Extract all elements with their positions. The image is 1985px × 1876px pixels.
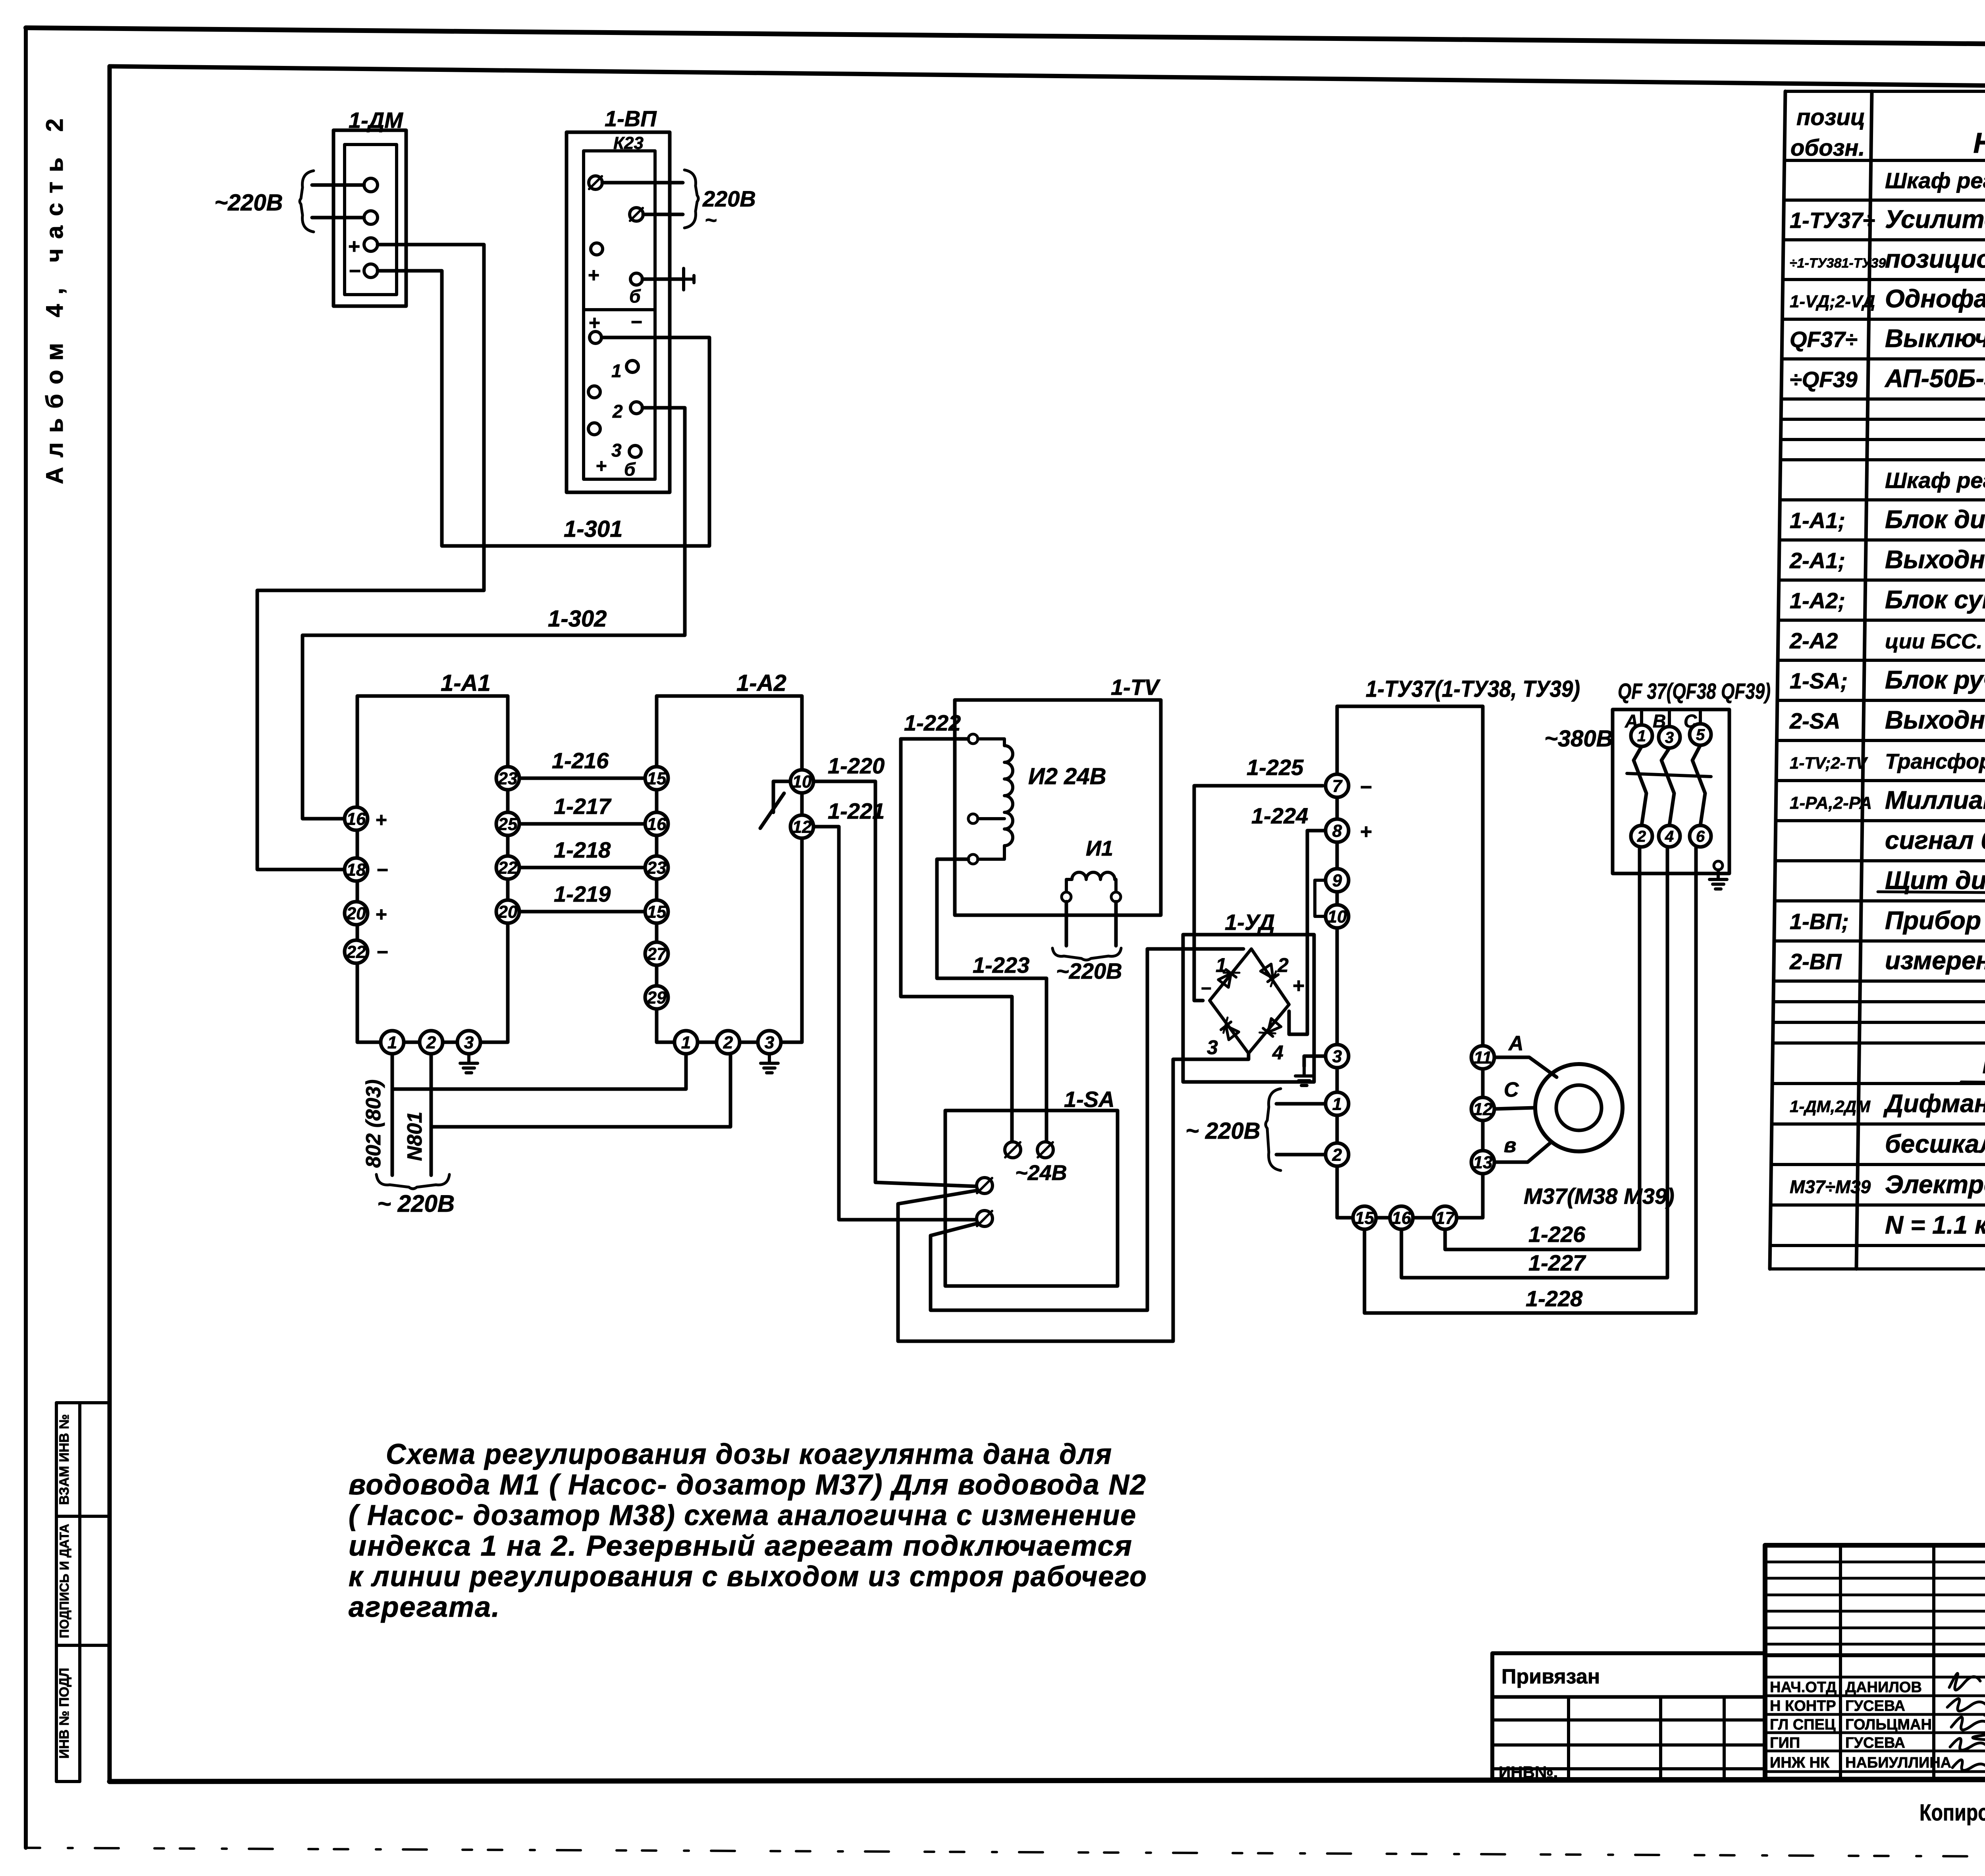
svg-text:1-ВП;: 1-ВП; [1790,909,1849,934]
svg-text:2-SА: 2-SА [1789,708,1840,733]
svg-text:агрегата.: агрегата. [349,1591,500,1623]
wire 1-DM supply a [312,183,364,187]
svg-text:Выходной сигнал 0-5мА ~24В: Выходной сигнал 0-5мА ~24В [1885,706,1985,734]
terminal 1-VP plus output [590,332,601,343]
wire 1-224 bridge plus to TU terminal 8 [1289,831,1324,1034]
terminal 1-VP pin3a [588,423,600,435]
terminal TU 9 [1326,869,1349,892]
svg-text:−: − [1201,978,1211,999]
QF pole А contact [1634,746,1646,825]
inner drawing frame left [108,66,112,1782]
svg-text:10: 10 [1328,907,1347,926]
block 1-A1 box [357,696,508,1042]
svg-text:Электродвигатель 4АХ80А4: Электродвигатель 4АХ80А4 [1885,1170,1985,1199]
svg-text:1-219: 1-219 [554,881,611,906]
QF ground terminal [1714,861,1723,870]
motor M37 outer circle [1535,1064,1623,1151]
underbrace supply 220V [376,1174,449,1189]
wire TU 13 to motor phase B [1494,1142,1551,1162]
svg-text:К23: К23 [613,133,644,153]
svg-text:QF 37(QF38 QF39): QF 37(QF38 QF39) [1618,679,1771,704]
QF pole В contact [1661,748,1674,825]
wire TV prim b down [1114,902,1118,946]
block 1-VP outer box [567,132,670,492]
terminal TU 10 [1326,905,1349,928]
wire 1-VP ground [642,278,684,281]
terminal 1-A1 16 [345,807,368,830]
svg-text:−: − [349,260,360,283]
svg-text:~220В: ~220В [1056,958,1122,983]
svg-text:1: 1 [681,1033,691,1052]
svg-text:1: 1 [611,361,622,381]
svg-text:16: 16 [647,814,667,834]
svg-text:20: 20 [498,902,518,922]
svg-text:1-302: 1-302 [548,606,607,632]
svg-text:Блок ручного управления БРУ-2: Блок ручного управления БРУ-22 [1885,665,1985,694]
svg-text:ИНВ№.: ИНВ№. [1499,1763,1558,1782]
svg-text:1-ВП: 1-ВП [605,106,657,131]
QF pole В top stub [1668,710,1671,727]
QF terminal 2 [1631,825,1652,847]
svg-text:И2 24В: И2 24В [1028,764,1106,789]
svg-text:N801: N801 [403,1112,426,1161]
terminal TU 11 [1471,1046,1494,1069]
terminal 1-A2 27 [645,942,668,965]
QF pole С contact [1692,745,1705,825]
svg-text:1-А1;: 1-А1; [1790,508,1845,533]
terminal 1-A2 15 [645,767,668,790]
QF pole А top stub [1640,710,1643,725]
svg-text:220В: 220В [702,186,756,211]
signature squiggles [1947,1674,1985,1770]
terminal SA left2 [977,1211,992,1226]
svg-text:Миллиамперметр М381. Выходной: Миллиамперметр М381. Выходной [1885,786,1985,814]
svg-text:23: 23 [498,769,518,788]
switch stub at 1-A2 10 [773,781,790,812]
svg-text:29: 29 [647,988,667,1007]
svg-text:к линии регулирования с вы: к линии регулирования с выходом из строя… [349,1561,1147,1593]
svg-text:в: в [1504,1134,1516,1157]
svg-text:1: 1 [1332,1094,1342,1114]
svg-text:÷1-ТУ381-ТУ39: ÷1-ТУ381-ТУ39 [1790,256,1886,271]
QF ground symbol [1717,870,1720,879]
underline Po mestu [1961,1082,1985,1084]
svg-text:1-222: 1-222 [904,710,961,735]
title block vertical 1 [1839,1545,1842,1779]
terminal 1-A1 22r [496,856,519,879]
page outer border bottom (torn edge) [26,1848,1985,1859]
terminal 1-A2 16 [645,812,668,835]
inner drawing frame bottom [110,1779,1985,1782]
svg-text:ДАНИЛОВ: ДАНИЛОВ [1845,1679,1922,1696]
svg-text:1-225: 1-225 [1247,755,1304,780]
svg-text:М37(М38 М39): М37(М38 М39) [1524,1184,1675,1209]
terminal 1-VP pin2 [630,402,642,414]
svg-text:1-А1: 1-А1 [441,670,491,696]
wire N801 from 1-A1 pin2 [430,1054,433,1175]
svg-text:НАБИУЛЛИНА: НАБИУЛЛИНА [1845,1755,1951,1771]
table col divider oboznachenie [1856,91,1872,1269]
terminal 1-A1 20 [345,902,368,925]
svg-text:ИНЖ НК: ИНЖ НК [1770,1755,1830,1771]
brace 220V at 1-VP [684,170,698,228]
terminal 1-VP pin3 [629,445,641,457]
svg-text:1-221: 1-221 [828,798,885,823]
svg-text:~380В: ~380В [1544,726,1613,752]
svg-text:1-ТV: 1-ТV [1111,675,1161,700]
title block full line [1765,1653,1985,1657]
svg-text:ИНВ № ПОДЛ: ИНВ № ПОДЛ [57,1668,72,1759]
svg-text:1-228: 1-228 [1526,1286,1583,1311]
svg-text:Шкаф регулирования коагулянта: Шкаф регулирования коагулянта N2 [1885,468,1985,493]
terminal TU 12 [1471,1097,1494,1120]
terminal TU 2 [1326,1143,1349,1166]
svg-text:13: 13 [1473,1153,1493,1172]
svg-text:8: 8 [1332,821,1342,841]
svg-text:3: 3 [1665,729,1674,746]
svg-text:1-SА;: 1-SА; [1790,668,1848,693]
inner drawing frame top [110,66,1985,91]
svg-text:+: + [375,809,387,831]
svg-text:ГУСЕВА: ГУСЕВА [1845,1698,1905,1714]
svg-text:÷QF39: ÷QF39 [1790,367,1858,392]
svg-text:1-УД: 1-УД [1225,910,1275,935]
divider line in 1-VP [584,308,655,311]
svg-text:Прибор регистрирующий, предел: Прибор регистрирующий, предел [1885,906,1985,935]
svg-text:( Насос- дозатор М38) схема: ( Насос- дозатор М38) схема аналогична с… [349,1500,1137,1531]
block 1-TU37 box [1337,706,1483,1218]
svg-text:позиционный У-22М: позиционный У-22М [1885,245,1985,273]
left stamp strip box [56,1403,80,1782]
diode 3 [1218,1018,1239,1040]
svg-text:3: 3 [464,1033,474,1052]
svg-text:1: 1 [1216,954,1227,976]
svg-text:15: 15 [1355,1208,1374,1228]
svg-text:−: − [376,859,388,881]
jumper 9-10 [1315,880,1326,916]
terminal SA top2 [1037,1142,1053,1158]
terminal TU 3 [1326,1045,1349,1068]
svg-text:ГЛ СПЕЦ: ГЛ СПЕЦ [1770,1716,1836,1733]
strip divider 2 [56,1644,110,1647]
svg-text:Привязан: Привязан [1501,1665,1600,1688]
wire 1-VP supply 2 [643,213,683,216]
terminal TU 1 [1326,1092,1349,1115]
title block thin rows left [1765,1562,1985,1772]
svg-text:Выключатель автоматический: Выключатель автоматический [1885,324,1985,353]
wire 1-217 [519,822,645,826]
page outer border left [24,28,28,1848]
svg-text:Дифманометр мембранный: Дифманометр мембранный [1883,1089,1985,1118]
terminal 1-A2 23 [645,856,668,879]
diode 2 [1260,964,1281,986]
page outer border top [26,28,1985,48]
svg-text:измерения 0-5мА. РП-160-09: измерения 0-5мА. РП-160-09 [1885,946,1985,975]
left stamp strip second column [80,1401,110,1404]
svg-text:~: ~ [705,209,717,232]
terminal 1-A2 1 [675,1031,698,1054]
wire junction N801 to 1-A2 pin2 [431,1054,730,1127]
block QF37 box [1613,710,1729,873]
svg-text:б: б [629,286,641,307]
svg-text:−: − [376,941,388,963]
wire 1-216 [519,777,645,780]
svg-text:1-ДМ: 1-ДМ [349,108,403,133]
switch blade at 1-A2 [760,793,784,828]
svg-text:обозн.: обозн. [1790,135,1865,161]
svg-text:3: 3 [611,440,622,461]
wire TU 12 to motor phase C [1494,1108,1535,1109]
svg-text:15: 15 [647,769,667,788]
terminal 1-A2 3 [758,1031,781,1054]
wire 1-VP supply 1 [602,181,683,185]
svg-text:25: 25 [498,814,518,834]
svg-text:11: 11 [1474,1048,1492,1067]
wire 1-220 from 1-A2 10 to SA [813,781,976,1186]
svg-text:+: + [588,264,599,286]
svg-text:ВЗАМ ИНВ №: ВЗАМ ИНВ № [57,1414,72,1505]
svg-text:1-ДМ,2ДМ: 1-ДМ,2ДМ [1790,1097,1871,1116]
svg-text:802 (803): 802 (803) [362,1080,385,1168]
svg-text:+: + [348,235,360,258]
svg-text:ПОДПИСЬ И ДАТА: ПОДПИСЬ И ДАТА [57,1524,71,1638]
wire TU 2 supply [1276,1153,1326,1157]
wire TV prim a down [1065,902,1068,946]
terminal 1-VP supply 2 [630,208,643,221]
terminal 1-A1 23 [496,767,519,790]
svg-text:позиц: позиц [1796,104,1865,130]
svg-text:2: 2 [1332,1145,1342,1165]
wire TU 1 supply [1276,1102,1326,1106]
terminal TV sec mid [968,814,978,823]
wire 1-225 bridge minus to TU terminal 7 [1194,786,1323,1001]
terminal TU 17 [1434,1206,1457,1229]
wire 1-223 TV to 1-SA [937,859,1046,1142]
svg-text:~ 220В: ~ 220В [1185,1118,1260,1144]
terminal 1-A2 2 [717,1031,740,1054]
terminal 1-VP spare [591,243,603,255]
svg-text:+: + [1292,974,1304,997]
wire junction 802 to 1-A2 pin1 [392,1054,686,1089]
QF terminal 5 [1690,724,1711,745]
terminal 1-A1 22 [345,940,368,963]
terminal 1-A1 18 [345,858,368,881]
svg-text:~24В: ~24В [1015,1161,1067,1185]
block 1-TV box [955,700,1161,915]
privyazan vertical 3 [1723,1697,1726,1779]
svg-text:Копировал. Коршунова: Копировал. Коршунова [1919,1800,1985,1826]
QF terminal 6 [1690,825,1711,847]
privyazan vertical 2 [1659,1697,1662,1779]
terminal TV sec bot [968,854,978,864]
svg-text:По месту: По месту [1982,1050,1985,1079]
svg-text:7: 7 [1332,776,1343,796]
svg-text:1-220: 1-220 [828,753,885,778]
ground at 1-A2 pin3 [768,1054,771,1063]
svg-text:Однофазный мост КЦ-402Е: Однофазный мост КЦ-402Е [1885,284,1985,313]
strip divider 1 [56,1515,110,1518]
terminal TU 16 [1390,1206,1413,1229]
svg-text:22: 22 [498,858,518,877]
terminal 1-A1 3 [457,1031,480,1054]
svg-text:−: − [630,311,642,333]
svg-text:Н КОНТР: Н КОНТР [1770,1698,1836,1714]
wire SA left2 to bridge top [931,949,1243,1310]
svg-text:ции БСС. выходной сигнал- 0-5м: ции БСС. выходной сигнал- 0-5мА~220В [1885,630,1985,653]
svg-text:1-226: 1-226 [1528,1222,1586,1247]
ground at 1-A1 pin3 [467,1054,470,1063]
terminal TV sec top [968,734,978,744]
svg-text:А: А [1508,1032,1524,1055]
svg-text:1-VД;2-VД: 1-VД;2-VД [1790,292,1875,311]
svg-text:1-А2;: 1-А2; [1790,588,1845,613]
table horizontal rules [1770,91,1985,1269]
svg-text:~220В: ~220В [214,190,283,216]
winding I1 primary coil [1066,872,1116,893]
svg-text:1-ТV;2-ТV: 1-ТV;2-ТV [1790,754,1868,772]
wire 802(803) from 1-A1 pin1 [391,1054,394,1175]
privyazan row lines [1492,1720,1765,1769]
svg-text:1-216: 1-216 [552,748,609,773]
svg-text:+: + [375,903,387,925]
svg-text:1-ТУ37(1-ТУ38, ТУ39): 1-ТУ37(1-ТУ38, ТУ39) [1366,676,1580,702]
svg-text:Блок динамической связи БДС: Блок динамической связи БДС [1885,505,1985,534]
QF pole С top stub [1699,710,1702,724]
svg-text:16: 16 [347,809,366,829]
terminal SA top1 [1005,1142,1021,1158]
QF terminal 3 [1659,727,1680,748]
svg-text:3: 3 [765,1033,774,1052]
block 1-VP inner box [584,151,655,479]
svg-text:ГУСЕВА: ГУСЕВА [1845,1735,1905,1751]
svg-text:−: − [1360,776,1372,799]
svg-text:1-218: 1-218 [554,837,611,862]
terminal 1-DM pin b [364,211,378,224]
svg-text:12: 12 [792,817,812,837]
svg-text:18: 18 [347,860,366,879]
QF trip bar [1627,773,1711,777]
underbrace at TV primary [1052,948,1121,960]
terminal 1-A1 20r [496,900,519,923]
wire 1-219 [519,910,645,914]
svg-text:Схема регулирования дозы ко: Схема регулирования дозы коагулянта дана… [386,1438,1112,1470]
svg-text:23: 23 [647,858,667,877]
title block vertical 2 [1932,1545,1935,1779]
svg-text:1-ТУ37÷: 1-ТУ37÷ [1790,208,1875,233]
underline Shchit dispetchera [1878,892,1985,894]
svg-text:С: С [1504,1078,1519,1101]
svg-text:Щит диспетчера: Щит диспетчера [1885,866,1985,895]
svg-text:М37÷М39: М37÷М39 [1790,1176,1871,1197]
terminal 1-VP supply 1 [589,176,602,189]
svg-text:1-SА: 1-SА [1064,1087,1115,1112]
svg-text:1-РА,2-РА: 1-РА,2-РА [1790,793,1872,813]
svg-text:2-А2: 2-А2 [1789,628,1838,653]
svg-text:12: 12 [1473,1099,1493,1119]
svg-text:1-217: 1-217 [554,794,612,819]
svg-text:6: 6 [1696,828,1705,845]
ground at TU 3 [1303,1066,1306,1076]
wire 1-226 TU17 to QF [1445,847,1640,1249]
svg-text:4: 4 [1272,1041,1284,1064]
svg-text:1: 1 [1637,727,1646,745]
block 1-SA box [945,1111,1118,1286]
svg-text:4: 4 [1665,828,1674,845]
svg-text:1-А2: 1-А2 [736,670,786,696]
svg-text:АП-50Б-3МТ Iр=4А,: АП-50Б-3МТ Iр=4А, [1884,364,1985,393]
bridge diamond edges [1210,949,1289,1053]
svg-text:ГОЛЬЦМАН: ГОЛЬЦМАН [1845,1716,1932,1733]
wire 1-302 from 1-VP pin2 to 1-A1 16 [303,408,685,819]
svg-text:Трансформатор однофазный ОСМ1-: Трансформатор однофазный ОСМ1-0.1 [1885,750,1985,773]
terminal 1-A1 2 [420,1031,443,1054]
privyazan block outline [1492,1653,1765,1779]
svg-text:5: 5 [1696,726,1705,744]
svg-text:27: 27 [647,944,667,964]
svg-text:1: 1 [387,1033,397,1052]
QF terminal 4 [1659,825,1680,847]
motor M37 inner circle [1556,1085,1601,1130]
terminal 1-VP pin1b [588,386,600,398]
svg-text:3: 3 [1207,1036,1218,1059]
svg-text:20: 20 [346,904,366,923]
wire 1-DM plus to 1-A1 18 [257,245,484,870]
wire 1-DM minus (circuit 1-301) to 1-VP plus [378,271,709,546]
wire 1-DM supply b [312,216,364,220]
wire TU 11 to motor phase A [1494,1057,1557,1077]
wire TU 3 to ground [1304,1056,1326,1066]
svg-text:Наименование: Наименование [1973,127,1985,159]
wire 1-227 TU16 to QF [1401,847,1667,1278]
terminal 1-VP ground pin [630,273,642,285]
svg-text:2-А1;: 2-А1; [1789,548,1845,573]
block 1-A2 box [657,696,802,1042]
svg-text:Альбом 4, часть 2: Альбом 4, часть 2 [41,109,68,484]
privyazan header line [1492,1695,1765,1699]
svg-text:1-227: 1-227 [1528,1250,1586,1275]
chassis ground at 1-VP [684,268,694,290]
svg-text:1-224: 1-224 [1251,803,1308,828]
wire SA left1 to bridge bottom [898,1054,1249,1341]
svg-text:бесшкальный ~220В ДМЭР-М: бесшкальный ~220В ДМЭР-М [1885,1130,1985,1158]
svg-text:QF37÷: QF37÷ [1790,327,1858,352]
terminal TV prim b [1111,892,1121,902]
svg-text:Блок суммирования и сигнализ: Блок суммирования и сигнализа- [1885,585,1985,614]
title block outline [1765,1545,1985,1779]
svg-text:Шкаф регулирования коагулянта: Шкаф регулирования коагулянта N1 [1885,168,1985,193]
svg-text:1-223: 1-223 [973,952,1029,978]
brace 1-DM supply [300,171,314,232]
svg-text:сигнал 0÷5мА: сигнал 0÷5мА [1885,826,1985,854]
block 1-UD box [1183,935,1314,1082]
svg-text:2: 2 [426,1033,436,1052]
brace ~220V at TU [1266,1089,1281,1170]
svg-text:2-ВП: 2-ВП [1789,949,1842,974]
terminal TU 13 [1471,1151,1494,1174]
terminal 1-A1 25 [496,812,519,835]
block 1-DM outer box [333,130,406,306]
terminal 1-A2 15b [645,900,668,923]
svg-text:3: 3 [1332,1047,1342,1066]
svg-text:22: 22 [346,942,366,962]
svg-text:1-301: 1-301 [564,516,622,542]
terminal 1-A1 1 [381,1031,404,1054]
svg-text:2: 2 [1637,828,1646,845]
terminal TV prim a [1062,892,1071,902]
svg-text:10: 10 [792,772,812,791]
svg-text:~ 220В: ~ 220В [377,1190,455,1217]
svg-text:+: + [1360,820,1372,843]
